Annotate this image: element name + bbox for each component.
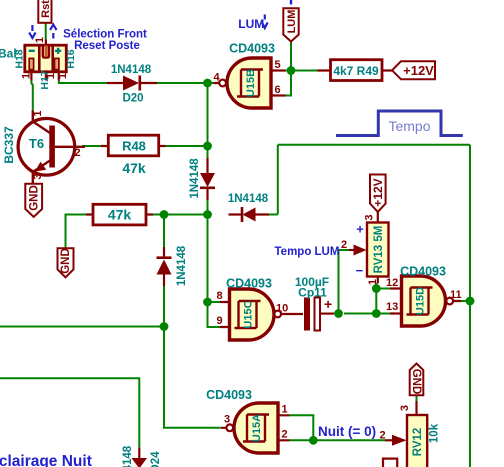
svg-text:2: 2 [75, 147, 81, 159]
wire U15C pin8 stub [208, 301, 222, 303]
resistor R49 4k7 [318, 60, 393, 81]
svg-text:U15D: U15D [415, 287, 427, 315]
wire GND3 to RV12 pin3 [416, 395, 418, 401]
svg-text:Reset Poste: Reset Poste [74, 40, 140, 52]
svg-text:LUM: LUM [238, 17, 264, 31]
wire vertical x=207.5 node 214.5 down to U15C pin8 node [207, 215, 209, 303]
svg-text:1: 1 [34, 37, 46, 43]
svg-text:Bal: Bal [0, 47, 17, 61]
svg-text:−: − [356, 263, 364, 278]
connector jumpers H18 H17 H16 [14, 37, 77, 90]
wire left edge to D24 anode [0, 378, 139, 447]
op-amp gate U15C CD4093 (output right) [217, 277, 304, 341]
junction node U15D pin12 [372, 284, 381, 293]
wire LUM label to node (291,70.5) [290, 42, 292, 71]
diode 1N4148 (horizontal, y=214.5, points left) [228, 193, 269, 222]
svg-text:10: 10 [276, 303, 288, 315]
svg-text:U15A: U15A [251, 414, 263, 442]
svg-text:13: 13 [386, 301, 398, 313]
svg-text:U15C: U15C [243, 300, 255, 328]
resistor (partial, bottom edge) [383, 459, 397, 467]
wire U15D output to node (470,301) [461, 300, 470, 302]
svg-text:CD4093: CD4093 [229, 42, 275, 56]
svg-text:Eclairage Nuit: Eclairage Nuit [0, 453, 92, 467]
junction node 47k right [160, 210, 169, 219]
svg-text:GND: GND [29, 185, 41, 211]
wire U15D pin12 node stub [376, 288, 390, 290]
wire loop down right side x=470 [469, 145, 471, 467]
ground GND (left of 47k) [58, 248, 74, 277]
svg-text:LUM: LUM [286, 10, 298, 34]
junction node at D20-R48 column top [203, 79, 212, 88]
wire RV13 pin1 to node (376.3,288.5) [375, 283, 377, 289]
svg-text:CD4093: CD4093 [400, 265, 446, 279]
wire vertical bus x=207.5 from node 83 to node 146 [207, 83, 209, 160]
svg-text:6: 6 [275, 84, 281, 96]
blue dash above LUM label [290, 0, 292, 5]
junction node U15C pin8 [203, 298, 212, 307]
wire 47k right to node (164,214.5) to node (207.5,214.5) [153, 214, 208, 216]
potentiometer RV13 5M [341, 212, 389, 285]
svg-text:Sélection Front: Sélection Front [63, 28, 147, 40]
svg-text:Rst: Rst [40, 0, 52, 18]
svg-text:1: 1 [282, 404, 288, 416]
svg-text:2: 2 [341, 239, 347, 251]
transistor Q T6 BC337 [2, 110, 85, 183]
svg-text:11: 11 [450, 289, 462, 301]
wire U15A pin2 to node (313.3,440.3) to RV12 wiper [290, 439, 386, 441]
svg-text:D24: D24 [150, 451, 162, 467]
svg-text:1N4148: 1N4148 [176, 245, 188, 286]
wire Rst label to connector H17 top pin [45, 23, 47, 40]
junction node U15A pin2 [309, 436, 318, 445]
svg-text:4: 4 [214, 72, 221, 84]
svg-text:1: 1 [20, 73, 32, 79]
svg-text:1: 1 [32, 110, 44, 116]
ground GND (above RV12, pointing up) [410, 364, 424, 396]
wire lower diode bottom to node (164,326.5) [163, 285, 165, 327]
wire H16 pin to D20 anode [59, 81, 107, 84]
potentiometer RV12 10k [380, 401, 441, 467]
wire 47k left to GND2 [66, 215, 87, 249]
junction node R48 right [203, 142, 212, 151]
diode 1N4148 (vertical, x=207.5, points down) [189, 158, 215, 200]
wire loop horizontal y=144.8 [278, 144, 470, 146]
resistor R48 47k [101, 135, 166, 176]
junction node U15B pin5 / LUM [287, 66, 296, 75]
svg-text:9: 9 [217, 315, 223, 327]
svg-text:+12V: +12V [403, 63, 434, 78]
svg-text:GND: GND [60, 248, 72, 274]
svg-text:3: 3 [364, 214, 376, 220]
svg-text:1: 1 [367, 279, 379, 285]
wire node (164,326.5) horizontal to left edge [0, 326, 164, 328]
wire vertical x=207.5 diode D anode to node (207.5,214.5) [207, 190, 209, 215]
svg-text:CD4093: CD4093 [206, 388, 252, 402]
junction node left bottom branch [160, 322, 169, 331]
svg-text:RV13 5M: RV13 5M [373, 226, 385, 274]
svg-text:1N4148: 1N4148 [189, 158, 201, 199]
junction node U15D output [466, 297, 475, 306]
svg-text:D20: D20 [122, 93, 143, 105]
wire Tempo LUM label to RV13 wiper [339, 249, 350, 251]
diode D24 1N4148 (bottom, points down) [122, 445, 162, 467]
svg-text:1N4148: 1N4148 [111, 64, 152, 76]
svg-text:GND: GND [410, 369, 422, 395]
svg-text:4k7 R49: 4k7 R49 [333, 64, 379, 78]
blue dashed arrow down (left of connector) [29, 25, 35, 38]
ground GND (below T6) [25, 184, 42, 217]
svg-text:1N4148: 1N4148 [228, 193, 269, 205]
svg-text:CD4093: CD4093 [226, 277, 272, 291]
wire D20 cathode to node at (207.5,83) [142, 82, 213, 84]
svg-text:Tempo LUM: Tempo LUM [275, 246, 340, 258]
wire node (376.3,288.5) down to node (376.3,313.5) [375, 289, 377, 314]
wire U15C pin8 node to pin9 corner [208, 302, 222, 327]
annotation Tempo pulse waveform [336, 111, 463, 136]
wire U15B pin6 up to node (291,70.5) [286, 71, 292, 96]
wire node (207.5,83) to U15B output bubble [208, 82, 214, 84]
wire node (164,326.5) down then right to U15A output [164, 327, 221, 428]
hierarchical label Rst [38, 0, 52, 23]
power label +12V (above RV13) [370, 175, 386, 212]
junction node diode column y=214.5 [203, 210, 212, 219]
diode D20 1N4148 [107, 64, 157, 105]
svg-text:3: 3 [399, 405, 411, 411]
resistor 47k (left) [86, 204, 153, 225]
svg-text:1N4148: 1N4148 [122, 445, 134, 467]
op-amp gate U15B CD4093 (mirrored, output left) [214, 42, 286, 109]
wire U15A pin1 right then down to pin2 node [290, 415, 314, 440]
blue dashed arrow up (right) [50, 25, 56, 39]
capacitor Cp11 100uF [295, 275, 334, 331]
wire RV13 wiper corner down to cap node (338.5,313.5) [338, 250, 340, 314]
label Selection Front / Reset Poste [63, 28, 147, 52]
svg-text:12: 12 [386, 277, 398, 289]
svg-text:Tempo: Tempo [388, 118, 430, 134]
svg-text:47k: 47k [122, 160, 146, 176]
junction node U15D pin13 [372, 309, 381, 318]
svg-text:+: + [356, 222, 364, 237]
svg-text:47k: 47k [108, 206, 132, 222]
svg-text:U15B: U15B [245, 69, 257, 97]
wire U15B pin5 to node (291,70.5) [286, 70, 318, 72]
wire loop up x=277.8 [277, 145, 279, 215]
hierarchical label LUM [283, 8, 298, 41]
wire R48 right to node (207.5,146) [165, 145, 208, 147]
svg-text:3: 3 [224, 414, 230, 426]
power label +12V (right of R49) [392, 61, 435, 79]
op-amp gate U15D CD4093 (output right) [386, 265, 462, 327]
svg-text:RV12: RV12 [412, 428, 424, 457]
wire horizontal diode to loop corner [269, 214, 278, 216]
svg-text:H16: H16 [65, 49, 77, 68]
label LUM with down arrow [238, 15, 267, 31]
svg-text:3: 3 [32, 173, 44, 179]
svg-text:8: 8 [217, 290, 223, 302]
svg-text:Cp11: Cp11 [298, 286, 327, 300]
wire H18 pin to T6 collector [31, 81, 32, 111]
op-amp gate U15A CD4093 (mirrored, output left) [206, 388, 289, 453]
wire cap node to U15D pin13 node [344, 313, 390, 315]
svg-text:1: 1 [57, 73, 69, 79]
svg-text:5: 5 [275, 59, 281, 71]
wire T6 base to R48 left [82, 145, 101, 147]
svg-text:+12V: +12V [371, 178, 385, 206]
junction node cap Cp11 right [334, 309, 343, 318]
diode 1N4148 (vertical, x=164, points up) [157, 245, 189, 286]
svg-text:2: 2 [282, 429, 288, 441]
svg-text:1: 1 [45, 73, 57, 79]
svg-text:R48: R48 [122, 139, 146, 154]
svg-text:T6: T6 [29, 136, 44, 151]
svg-text:2: 2 [380, 430, 386, 442]
svg-text:10k: 10k [429, 423, 441, 443]
svg-text:Nuit (= 0): Nuit (= 0) [318, 424, 376, 439]
svg-text:BC337: BC337 [2, 126, 16, 164]
wire node (164,214.5) down to lower diode [163, 215, 165, 248]
